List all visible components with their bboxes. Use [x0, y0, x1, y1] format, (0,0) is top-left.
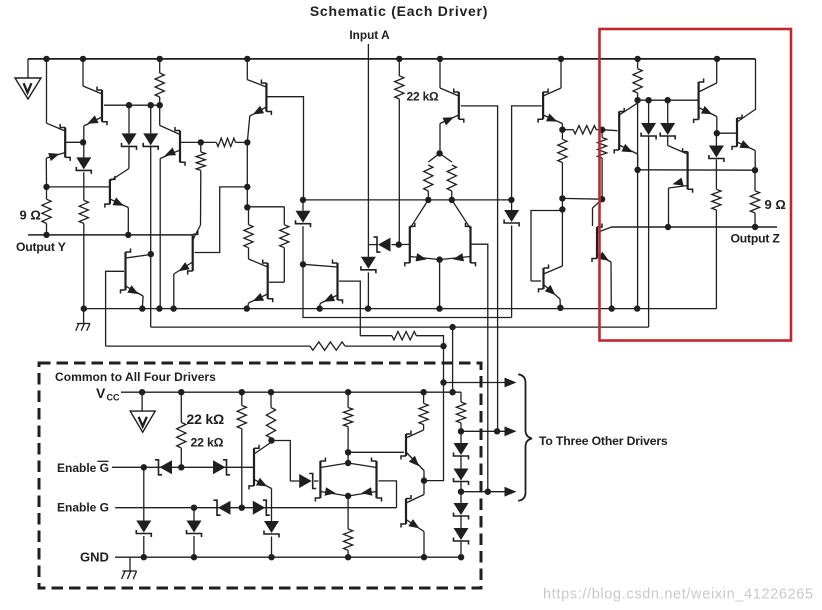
- node 22k bottom: [396, 241, 402, 247]
- node chain-1: [458, 428, 464, 434]
- resistor R1: [155, 59, 164, 105]
- transistor Q22: [349, 430, 424, 481]
- transistor Q13 (output Z pulldown drv): [592, 224, 612, 309]
- node W200-b: [425, 197, 431, 203]
- diode D5 (input clamp v): [361, 245, 376, 309]
- diode D7: [504, 210, 519, 318]
- transistor Q12 (input pnp R): [538, 59, 562, 130]
- diode D15: [214, 500, 231, 515]
- resistor R2 (9 ohm): [42, 187, 51, 235]
- label Output Z: [731, 232, 781, 246]
- node arrow1 start: [440, 379, 446, 385]
- wire W327 drop to vcc wire: [452, 327, 454, 392]
- node rail-D: [244, 56, 250, 62]
- node bus-q4: [170, 305, 176, 311]
- power symbol VCC triangle 2: [130, 392, 155, 432]
- watermark: [543, 587, 814, 603]
- node bus-gnd: [81, 305, 87, 311]
- transistor Q23: [401, 481, 424, 558]
- wire W100: [638, 99, 698, 101]
- resistor R24: [419, 392, 428, 430]
- wire Q7 base: [106, 271, 124, 346]
- node chain-2: [458, 489, 464, 495]
- resistor R11 (horizontal): [562, 126, 602, 134]
- transistor Q5: [247, 59, 271, 142]
- node Q14 emitter-bus: [557, 305, 563, 311]
- node R11 end: [599, 127, 605, 133]
- node splitter-bus: [436, 305, 442, 311]
- label GND: [80, 550, 109, 565]
- node vccw-rlatch: [345, 389, 351, 395]
- wire W347 drop: [424, 346, 444, 481]
- wire latch Q21 base riser: [379, 481, 397, 508]
- label 22k b: [191, 435, 224, 449]
- red highlight box: [600, 29, 792, 341]
- resistor R4 (horizontal): [216, 138, 247, 146]
- diode D22: [454, 528, 469, 557]
- node rail-G: [558, 56, 564, 62]
- resistor R12: [558, 130, 567, 199]
- resistor R14: [633, 59, 642, 100]
- node vccw-r22b: [178, 389, 184, 395]
- node q5e-chain2: [244, 204, 250, 210]
- node D6 bottom: [300, 261, 306, 267]
- ground symbol 1: [76, 309, 90, 331]
- resistor R13: [598, 130, 607, 200]
- node Q5 emitter: [244, 139, 250, 145]
- svg-text:Enable G: Enable G: [57, 501, 109, 515]
- svg-text:https://blog.csdn.net/weixin_4: https://blog.csdn.net/weixin_41226265: [543, 587, 814, 603]
- brace to three other drivers: [518, 374, 532, 501]
- node W105-b: [148, 102, 154, 108]
- resistor R8 (22k): [395, 59, 404, 245]
- diode D14 (latch input): [290, 474, 318, 489]
- transistor Q24: [160, 105, 185, 308]
- transistor Q1: [46, 59, 83, 187]
- diode D11: [155, 460, 172, 475]
- node eng-a: [191, 505, 197, 511]
- node W105-a: [126, 102, 132, 108]
- node vccw-rq19: [268, 389, 274, 395]
- transistor Q16 (output Z top): [717, 59, 756, 170]
- resistor R23: [344, 496, 353, 557]
- node q5e-chain1: [244, 184, 250, 190]
- transistor Q8 (phase splitter drv): [303, 260, 360, 336]
- diode D2: [122, 105, 137, 168]
- node Q12 emitter: [559, 127, 565, 133]
- diode D17: [136, 467, 151, 557]
- node rail-C: [157, 56, 163, 62]
- diode D13: [264, 521, 279, 557]
- node W139-R5: [198, 139, 204, 145]
- node gnd-b: [191, 554, 197, 560]
- transistor Q15 (pre-driver R): [694, 59, 717, 133]
- node latch top b: [345, 460, 351, 466]
- wire arrow line 2: [461, 426, 517, 436]
- diode D6: [296, 200, 311, 264]
- svg-text:To Three Other Drivers: To Three Other Drivers: [539, 434, 668, 448]
- wire Q24 base: [181, 141, 216, 143]
- label Common to All Four Drivers: [55, 370, 216, 384]
- svg-text:Schematic (Each Driver): Schematic (Each Driver): [310, 3, 488, 19]
- wire Q19c to latch feed: [272, 441, 291, 482]
- diode D1 on Q2 emitter leg: [76, 157, 91, 200]
- label Enable Gbar: [57, 461, 109, 475]
- wire Enable G: [115, 507, 396, 509]
- wire Q9 base: [461, 106, 498, 431]
- resistor R18 (horizontal): [310, 342, 444, 350]
- node bus-q8: [317, 305, 323, 311]
- wire W347: [106, 345, 310, 347]
- label 22k top: [407, 90, 440, 104]
- node vccw-drop: [449, 389, 455, 395]
- transistor Q20 (latch L): [315, 458, 348, 502]
- node vccw-r22a: [239, 389, 245, 395]
- wire W200: [303, 199, 511, 201]
- node Q19 collector: [268, 437, 274, 443]
- transistor Q11 (splitter R): [442, 200, 488, 492]
- diode D16: [253, 500, 270, 515]
- wire Q2 base: [104, 104, 160, 106]
- node rail-B: [80, 56, 86, 62]
- node gnd-d: [345, 554, 351, 560]
- node bus-q7: [139, 305, 145, 311]
- node W347 junction: [440, 343, 446, 349]
- wire arrow line 1: [444, 378, 517, 388]
- node eng-b: [239, 505, 245, 511]
- node latch top a: [345, 449, 351, 455]
- wire Q7 collector drop: [150, 254, 152, 327]
- svg-text:22 kΩ: 22 kΩ: [191, 435, 224, 449]
- resistor R3: [79, 200, 88, 308]
- node Q7 collector / D3 bottom: [148, 251, 154, 257]
- diode D8: [641, 100, 656, 327]
- title: [310, 3, 488, 19]
- transistor Q10 (splitter L): [399, 200, 438, 267]
- wire GND: [115, 556, 461, 558]
- node rail-E: [396, 56, 402, 62]
- transistor Q21 (latch R): [348, 458, 381, 502]
- node Q18 emitter - outZ: [665, 224, 671, 230]
- node vccw-rq21: [420, 389, 426, 395]
- node rail-A: [43, 56, 49, 62]
- node clamp-bus: [365, 305, 371, 311]
- node gnd-e: [421, 554, 427, 560]
- node gnd-c: [268, 554, 274, 560]
- resistor R6: [244, 207, 253, 247]
- node engbar-b: [178, 464, 184, 470]
- resistor R25: [456, 392, 465, 431]
- node R13 bottom: [599, 196, 605, 202]
- label Output Y: [16, 240, 66, 254]
- diode D21: [454, 492, 469, 528]
- power symbol VCC (triangle V): [15, 59, 41, 99]
- svg-text:Common to All Four Drivers: Common to All Four Drivers: [55, 370, 216, 384]
- diode D4 (input clamp h): [368, 237, 398, 252]
- node Q17 emitter: [634, 167, 640, 173]
- wire VCC distribution: [121, 391, 461, 393]
- wire v247: [246, 142, 248, 207]
- transistor Q4 (output Y upper): [174, 187, 248, 309]
- node latch bottom: [345, 493, 351, 499]
- node 9ohmZ top: [752, 167, 758, 173]
- node W100-D8: [645, 97, 651, 103]
- node R12 bottom: [559, 195, 565, 201]
- node Q15 emitter: [714, 130, 720, 136]
- label 9 ohm right: [765, 197, 786, 212]
- wire W327: [151, 326, 649, 328]
- svg-text:Enable G: Enable G: [57, 461, 109, 475]
- wire W336: [360, 335, 392, 337]
- node splitter emitters: [436, 256, 442, 308]
- label Input A: [349, 28, 390, 42]
- diode D9: [660, 100, 675, 145]
- svg-text:9 Ω: 9 Ω: [20, 208, 41, 223]
- node gnd-a: [141, 554, 147, 560]
- resistor R7: [280, 207, 289, 282]
- diode D19: [454, 431, 469, 468]
- node Q13 emitter-bus: [609, 305, 615, 311]
- diode D3: [143, 105, 158, 254]
- diode D12: [213, 460, 230, 475]
- node W327-drop: [449, 324, 455, 330]
- wire Enable Gbar: [112, 466, 255, 468]
- node bus-q6: [244, 305, 250, 311]
- svg-text:V: V: [96, 385, 106, 401]
- diode D20: [454, 469, 469, 492]
- node outY-D2: [125, 232, 131, 238]
- node Q9 emitter: [436, 150, 442, 156]
- node vccw-tri: [139, 389, 145, 395]
- svg-text:CC: CC: [107, 393, 120, 403]
- resistor R5: [196, 142, 205, 225]
- dashed box Common to All Four Drivers: [39, 363, 481, 588]
- node arrow3-joint: [485, 489, 491, 495]
- resistor R15: [712, 189, 721, 308]
- node rail-F: [437, 56, 443, 62]
- resistor R17 (horizontal): [392, 332, 444, 347]
- node arrow2-joint: [494, 428, 500, 434]
- resistor R22: [344, 392, 353, 463]
- wire Q13 base diag: [593, 199, 603, 226]
- transistor Q18: [668, 146, 693, 228]
- wire res pair top: [247, 206, 284, 208]
- transistor Q2: [83, 59, 107, 157]
- transistor Q7: [121, 249, 151, 309]
- node Q1 emitter / 9-ohm top: [43, 184, 49, 190]
- node W100-D9: [665, 97, 671, 103]
- wire bias 187: [47, 186, 110, 188]
- svg-text:9 Ω: 9 Ω: [765, 197, 786, 212]
- svg-text:22 kΩ: 22 kΩ: [187, 411, 224, 427]
- wire VCC top rail: [28, 58, 756, 60]
- wire R12-R13 link: [562, 197, 602, 200]
- wire Output Z rail: [612, 226, 777, 228]
- node rail-I: [714, 56, 720, 62]
- transistor Q17: [602, 100, 638, 170]
- wire emitter bus: [84, 308, 717, 310]
- svg-text:GND: GND: [80, 550, 109, 565]
- resistor R10: [440, 153, 457, 200]
- transistor Q3: [105, 169, 129, 235]
- wire input A vertical: [367, 44, 369, 245]
- node W200-d: [508, 197, 514, 203]
- node W200-a: [300, 197, 306, 203]
- transistor Q19 (enable buffer): [249, 442, 272, 521]
- label VCC pin: [96, 385, 120, 403]
- wire Q12 base + diode leg: [512, 106, 542, 210]
- node Q1 base junction: [80, 139, 86, 145]
- node outY-9ohm: [43, 232, 49, 238]
- node R14 bottom: [634, 97, 640, 103]
- resistor R16 (9 ohm Z): [750, 170, 759, 227]
- node W200-c: [449, 197, 455, 203]
- resistor R20 (22k lower): [177, 392, 186, 467]
- node Q22 emitter: [421, 477, 427, 483]
- node Q17-bus: [634, 305, 640, 311]
- label 9 ohm left: [20, 208, 41, 223]
- wire W318: [303, 264, 512, 317]
- node W105-c: [157, 102, 163, 108]
- diode D18: [187, 508, 202, 558]
- resistor R19 (22k upper): [237, 392, 246, 508]
- wire arrow line 3: [461, 487, 517, 497]
- wire Q5 base: [266, 97, 303, 200]
- transistor Q9 (input pnp L): [440, 59, 464, 153]
- wire W170: [638, 169, 755, 171]
- node outZ-9ohm: [752, 224, 758, 230]
- svg-text:Output Y: Output Y: [16, 240, 66, 254]
- wire Q17 emitter to bus: [637, 170, 639, 309]
- svg-text:22 kΩ: 22 kΩ: [407, 90, 440, 104]
- node engbar-a: [141, 464, 147, 470]
- node gnd-g: [458, 554, 464, 560]
- resistor R9: [424, 153, 440, 200]
- svg-text:Output Z: Output Z: [731, 232, 781, 246]
- node bus-r1: [156, 305, 162, 311]
- wire Output Y rail: [28, 234, 192, 236]
- label Enable G: [57, 501, 109, 515]
- wire R14 bypass: [637, 100, 639, 170]
- transistor Q14 (mirror): [531, 198, 566, 307]
- resistor R21: [266, 392, 275, 440]
- diode D10: [709, 133, 724, 189]
- label To Three Other Drivers: [539, 434, 668, 448]
- ground symbol 2: [122, 557, 137, 579]
- svg-text:Input A: Input A: [349, 28, 390, 42]
- transistor Q6: [248, 248, 285, 309]
- node rail-H: [634, 56, 640, 62]
- label 22k a: [187, 411, 224, 427]
